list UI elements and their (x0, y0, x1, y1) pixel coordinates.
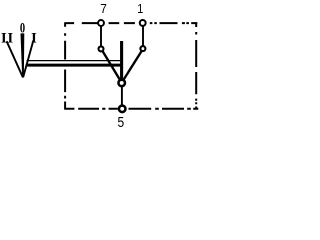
fixed contact circle under terminal 1 (140, 46, 145, 51)
movable contact arm to terminal 1 side (123, 51, 142, 80)
switch housing dash-dot border: left edge (64, 22, 66, 109)
terminal 1 circle (140, 20, 146, 26)
actuator shaft (thick vertical) (120, 41, 123, 80)
movable contact arm to terminal 7 side (103, 51, 121, 81)
svg-text:0: 0 (20, 18, 25, 35)
switch housing dash-dot border: bottom edge (64, 108, 198, 110)
switch housing dash-dot border: right edge (195, 22, 197, 109)
svg-text:I: I (31, 31, 37, 47)
svg-text:1: 1 (137, 1, 143, 16)
terminal 7 circle (98, 20, 104, 26)
lever (thick, position 0) (21, 33, 25, 78)
lead from terminal 7 to fixed contact (100, 26, 102, 46)
fixed contact circle under terminal 7 (99, 46, 104, 51)
lead from terminal 1 to fixed contact (142, 26, 144, 46)
svg-text:5: 5 (117, 114, 124, 131)
lever position line I (right) (23, 40, 33, 77)
mechanical linkage rod (thick lower line) (26, 64, 122, 67)
svg-text:II: II (1, 31, 14, 47)
svg-text:7: 7 (100, 1, 107, 16)
pivot contact circle (118, 80, 125, 87)
terminal 5 circle (119, 106, 126, 113)
lead from pivot to terminal 5 (121, 86, 123, 105)
mechanical linkage rod (thin upper line) (27, 60, 122, 62)
lever position line II (left) (7, 41, 23, 77)
switch housing dash-dot border: top edge (65, 22, 197, 24)
